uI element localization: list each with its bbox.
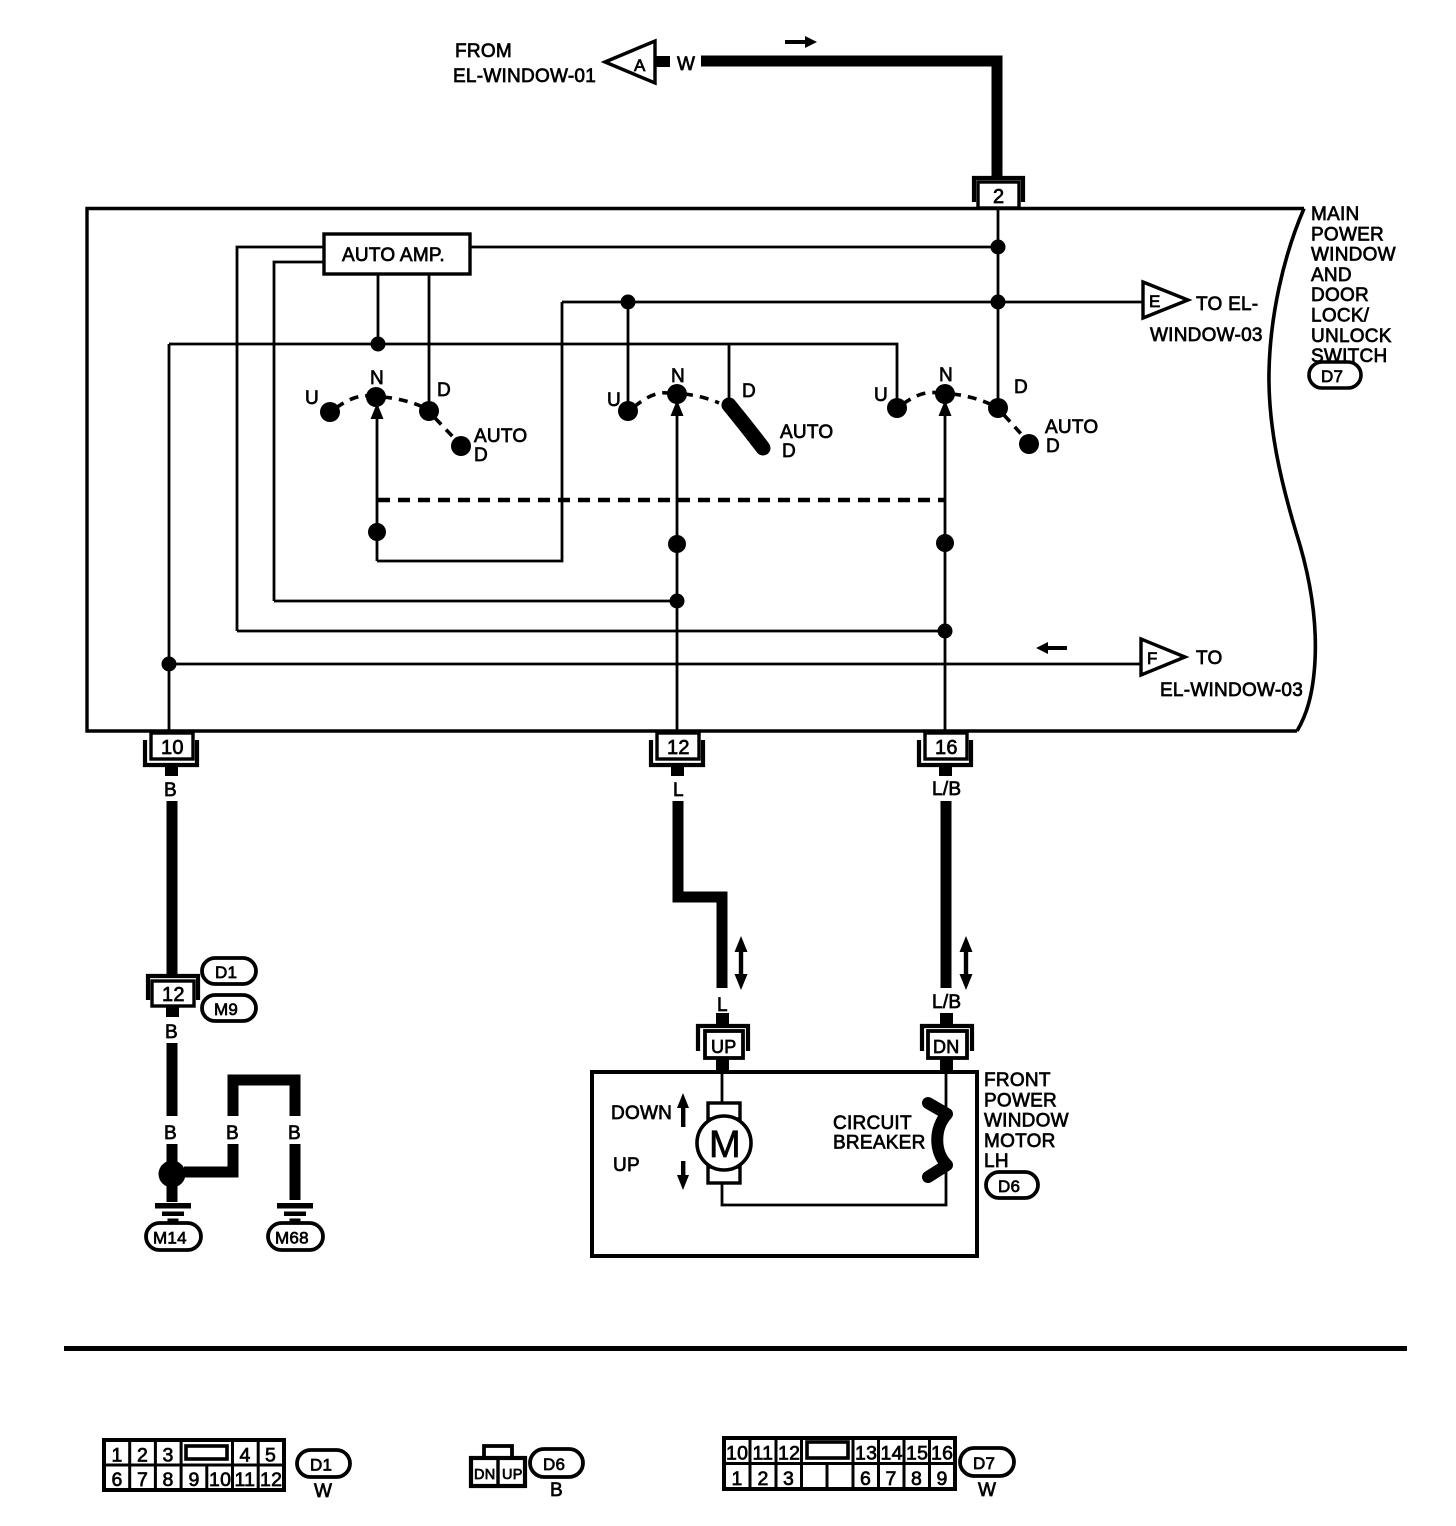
svg-text:9: 9 [937, 1468, 948, 1490]
svg-text:U: U [874, 385, 888, 406]
switch SW2 (window switch LH, lever in AUTO D) [607, 366, 833, 462]
connector triangle A [605, 41, 670, 83]
svg-text:12: 12 [260, 1469, 282, 1491]
connector pin 2 (D7 pin 2) [974, 178, 1023, 208]
motor M1 (window motor) [697, 1103, 751, 1183]
svg-text:UP: UP [711, 1037, 737, 1057]
connector UP (D6) [698, 1013, 748, 1072]
svg-text:FRONT: FRONT [984, 1070, 1051, 1091]
svg-text:POWER: POWER [984, 1090, 1057, 1111]
svg-text:U: U [607, 390, 621, 411]
main power window and door lock/unlock switch box (torn right edge) [87, 209, 1315, 732]
wire L/B (thick) [941, 801, 952, 988]
svg-text:D7: D7 [1321, 367, 1343, 386]
connector face D7 (16-pin grid) [724, 1438, 955, 1490]
circuit breaker CB1 [833, 1103, 947, 1177]
svg-text:N: N [939, 365, 953, 386]
connector ref oval D7 (right) [1309, 362, 1361, 388]
svg-text:1: 1 [112, 1445, 123, 1467]
svg-text:D6: D6 [543, 1455, 565, 1474]
svg-text:7: 7 [886, 1468, 897, 1490]
svg-text:DN: DN [474, 1467, 495, 1483]
svg-text:3: 3 [163, 1445, 174, 1467]
junction: conn2 net at y=247 [991, 240, 1006, 255]
switch SW1 (window switch, U/N/D/AUTO D) [305, 368, 527, 466]
svg-text:UNLOCK: UNLOCK [1311, 326, 1392, 347]
ground jumper (thick inverted U with legs) [184, 1080, 295, 1200]
svg-text:WINDOW: WINDOW [984, 1111, 1069, 1132]
svg-text:F: F [1147, 649, 1158, 668]
svg-text:N: N [370, 368, 384, 389]
svg-text:3: 3 [783, 1468, 794, 1490]
svg-text:LOCK/: LOCK/ [1311, 306, 1370, 327]
junction: AUTO AMP pin at y=344 [371, 337, 386, 352]
svg-text:L/B: L/B [932, 779, 961, 800]
svg-text:LH: LH [984, 1151, 1009, 1172]
svg-text:UP: UP [613, 1155, 640, 1176]
wire: AUTO AMP left pin 1 to bus x=237 [237, 247, 324, 631]
front power window motor LH box [592, 1072, 977, 1256]
svg-text:EL-WINDOW-01: EL-WINDOW-01 [453, 66, 596, 87]
svg-text:POWER: POWER [1311, 224, 1384, 245]
svg-text:WINDOW: WINDOW [1311, 245, 1396, 266]
connector pin 12 (D7 pin 12, to motor) [651, 733, 703, 776]
connector triangle E [1143, 282, 1188, 318]
connector ref oval D1 (inline) [202, 958, 256, 984]
connector pin 10 (D7 pin 10) [145, 733, 197, 776]
svg-text:11: 11 [235, 1469, 256, 1491]
wire: SW2 U feed from E net [627, 302, 630, 404]
switch SW3 (window switch, U/N/D/AUTO D) [874, 365, 1098, 457]
svg-text:TO: TO [1196, 648, 1223, 669]
svg-text:D: D [1046, 436, 1060, 457]
svg-text:12: 12 [162, 984, 185, 1006]
svg-text:B: B [165, 1022, 178, 1043]
svg-text:UP: UP [502, 1467, 523, 1483]
svg-text:D: D [742, 381, 756, 402]
svg-text:10: 10 [161, 737, 184, 759]
svg-text:2: 2 [993, 186, 1004, 208]
svg-text:AUTO: AUTO [1045, 417, 1098, 438]
svg-text:E: E [1149, 292, 1161, 311]
svg-text:M: M [709, 1124, 741, 1166]
wire L (thick) with jog [678, 801, 722, 988]
svg-text:D1: D1 [310, 1456, 332, 1475]
junction: SW1 wiper terminal [368, 523, 386, 541]
svg-text:L/B: L/B [932, 992, 961, 1013]
wire B (thick) down to ground junction [167, 1043, 178, 1116]
junction: SW2 U at E net [621, 295, 636, 310]
svg-text:16: 16 [931, 1443, 953, 1465]
svg-text:12: 12 [778, 1443, 800, 1465]
junction: SW3 wiper terminal [936, 534, 954, 552]
inline connector 12 (D1/M9 pin 12) [148, 976, 198, 1017]
connector face D6 (DN/UP) [471, 1446, 525, 1486]
horizontal rule [64, 1346, 1407, 1351]
junction: SW3 wiper at y=631 [938, 624, 953, 639]
svg-text:14: 14 [881, 1443, 903, 1465]
connector ref oval M9 (inline) [202, 995, 256, 1021]
svg-text:2: 2 [758, 1468, 769, 1490]
connector DN (D6) [922, 1013, 972, 1072]
component label: FRONT POWER WINDOW MOTOR LH [984, 1070, 1069, 1172]
wire: SW3 wiper vertical down to connector pin 16 [944, 410, 947, 731]
svg-text:D: D [1014, 377, 1028, 398]
junction: SW2 wiper terminal [668, 535, 686, 553]
svg-text:15: 15 [906, 1443, 928, 1465]
svg-text:MOTOR: MOTOR [984, 1131, 1056, 1152]
wire: F net y=664 from x=169 to triangle F [169, 663, 1141, 666]
svg-text:13: 13 [855, 1443, 877, 1465]
wire stub to ground M14 [167, 1180, 178, 1202]
mechanical linkage (dashed) [378, 498, 945, 503]
svg-text:MAIN: MAIN [1311, 204, 1360, 225]
svg-text:2: 2 [137, 1445, 148, 1467]
connector ref oval D7 (bottom) [960, 1448, 1014, 1501]
AUTO AMP. unit U1 [324, 234, 470, 274]
wire: DN pin to circuit breaker [945, 1072, 948, 1108]
wire W (thick) from A to connector 2 [701, 61, 997, 177]
svg-text:AUTO: AUTO [474, 426, 527, 447]
connector pin 16 (D7 pin 16) [919, 733, 971, 776]
junction: ground node [159, 1161, 186, 1188]
wire: AUTO AMP bottom pin 2 down to SW1 D contact [428, 274, 431, 404]
svg-text:BREAKER: BREAKER [833, 1133, 926, 1154]
bidirectional arrow (L/B wire) [960, 936, 973, 990]
svg-text:12: 12 [667, 737, 690, 759]
svg-text:FROM: FROM [455, 41, 512, 62]
junction: F net at x=169 [162, 657, 177, 672]
svg-text:B: B [288, 1123, 301, 1144]
svg-text:16: 16 [935, 737, 958, 759]
svg-text:D: D [437, 380, 451, 401]
wire: motor to circuit breaker (bottom loop) [722, 1172, 946, 1205]
connector ref oval D6 (bottom) [530, 1449, 583, 1501]
component label: MAIN POWER WINDOW AND DOOR LOCK/UNLOCK SWITCH [1311, 204, 1396, 367]
wire: AUTO AMP bottom pin to node on y=344 line [377, 274, 380, 344]
svg-text:B: B [226, 1123, 239, 1144]
node A: FROM EL-WINDOW-01 label [453, 41, 596, 87]
svg-text:AUTO: AUTO [780, 422, 833, 443]
label DOWN with up arrow [611, 1093, 689, 1127]
svg-text:10: 10 [209, 1469, 231, 1491]
svg-text:9: 9 [189, 1469, 200, 1491]
wire: y=601 link x=274 bus to SW2 wiper [274, 600, 677, 603]
svg-text:N: N [671, 366, 685, 387]
svg-text:D6: D6 [998, 1177, 1020, 1196]
svg-text:D: D [474, 445, 488, 466]
svg-text:D1: D1 [215, 963, 237, 982]
svg-text:D: D [782, 441, 796, 462]
wire: SW2 wiper vertical down to connector pin 12 [676, 410, 679, 731]
svg-text:W: W [314, 1481, 332, 1502]
wire: connector 2 net down to SW3 D contact [997, 209, 1000, 404]
svg-text:DOOR: DOOR [1311, 285, 1369, 306]
svg-text:5: 5 [265, 1445, 276, 1467]
svg-text:B: B [550, 1480, 563, 1501]
wire: SW1 wiper arrow vertical [376, 410, 379, 561]
svg-text:U: U [305, 388, 319, 409]
wire: E net y=302 from x=562 to triangle E [562, 301, 1143, 304]
svg-text:4: 4 [240, 1445, 251, 1467]
svg-text:L: L [673, 780, 684, 801]
ground M68 [268, 1203, 323, 1250]
connector face D1 (12-pin grid) [104, 1440, 284, 1491]
wire: bus y=344 from x=169 to SW3 U contact [169, 344, 897, 401]
wire: SW1 wiper return loop x=562 [377, 302, 562, 561]
svg-text:EL-WINDOW-03: EL-WINDOW-03 [1160, 680, 1303, 701]
wire: SW2 D feed from y=344 bus [728, 344, 731, 400]
node F: TO EL-WINDOW-03 label [1160, 648, 1303, 701]
svg-text:8: 8 [163, 1469, 174, 1491]
svg-text:B: B [164, 1123, 177, 1144]
label UP with down arrow [613, 1155, 689, 1190]
node E: TO EL-WINDOW-03 label [1150, 294, 1263, 346]
current-flow arrow (right) [785, 36, 817, 48]
svg-text:CIRCUIT: CIRCUIT [833, 1113, 912, 1134]
junction: SW2 wiper at y=601 [670, 594, 685, 609]
junction: conn2 net at E net [991, 295, 1006, 310]
svg-text:8: 8 [911, 1468, 922, 1490]
svg-text:6: 6 [860, 1468, 871, 1490]
svg-text:M68: M68 [275, 1229, 309, 1248]
connector ref oval D1 (bottom) [297, 1450, 350, 1502]
svg-text:L: L [717, 995, 728, 1016]
bidirectional arrow (L wire) [735, 936, 748, 990]
current-flow arrow (left) near F [1036, 642, 1067, 654]
connector triangle F [1141, 639, 1185, 675]
svg-text:B: B [164, 780, 177, 801]
svg-text:1: 1 [732, 1468, 743, 1490]
svg-text:AUTO AMP.: AUTO AMP. [342, 245, 445, 266]
svg-text:6: 6 [112, 1469, 123, 1491]
svg-text:M9: M9 [214, 1000, 238, 1019]
wire B (thick) pin10 down [167, 801, 178, 974]
wire: left vertical x=169 down to connector pin 10 [168, 344, 171, 731]
svg-text:D7: D7 [973, 1454, 995, 1473]
wire: UP pin to motor [721, 1072, 724, 1104]
wire: y=631 link x=237 bus to SW3 wiper [237, 630, 945, 633]
svg-text:DN: DN [933, 1037, 960, 1057]
wire B segment into ground node [167, 1144, 178, 1188]
svg-text:M14: M14 [153, 1229, 187, 1248]
svg-text:10: 10 [726, 1443, 748, 1465]
svg-text:DOWN: DOWN [611, 1103, 672, 1124]
svg-text:TO EL-: TO EL- [1196, 294, 1258, 315]
connector ref oval D6 (right) [986, 1172, 1038, 1198]
svg-text:11: 11 [753, 1443, 774, 1465]
svg-text:WINDOW-03: WINDOW-03 [1150, 325, 1263, 346]
svg-text:A: A [634, 56, 646, 75]
wire: AUTO AMP right pin to connector-2 net [470, 246, 998, 249]
svg-text:W: W [978, 1480, 996, 1501]
svg-text:AND: AND [1311, 265, 1352, 286]
svg-text:7: 7 [137, 1469, 148, 1491]
ground M14 [146, 1203, 201, 1250]
svg-text:W: W [677, 54, 695, 75]
wire: AUTO AMP left pin 2 to bus x=274 [274, 262, 324, 601]
